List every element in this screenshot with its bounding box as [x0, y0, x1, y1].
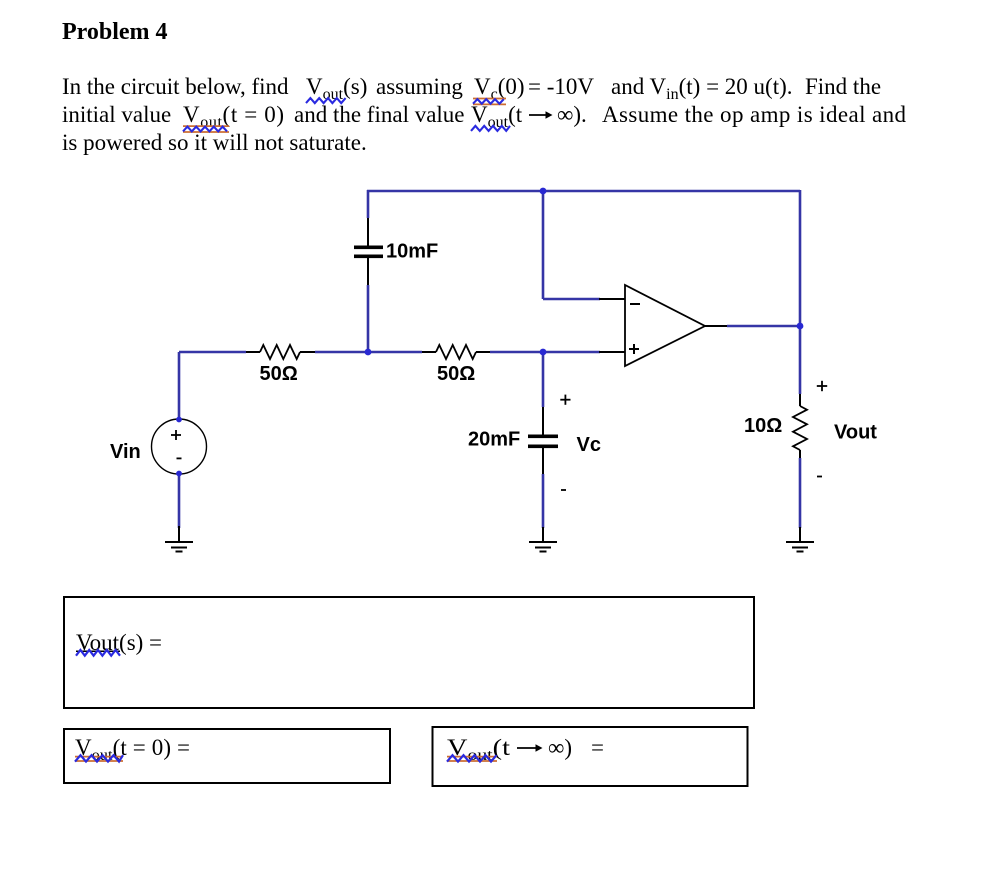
svg-text:Find the: Find the	[805, 74, 881, 99]
svg-text:=: =	[591, 735, 604, 760]
svg-text:∞): ∞)	[548, 735, 572, 760]
svg-text:10Ω: 10Ω	[744, 415, 782, 437]
svg-text:and the final value: and the final value	[294, 102, 465, 127]
svg-text:Vout: Vout	[834, 422, 877, 444]
svg-text:Assume the op amp is ideal and: Assume the op amp is ideal and	[602, 102, 907, 127]
svg-text:10mF: 10mF	[386, 241, 438, 263]
svg-text:In the circuit below, find: In the circuit below, find	[62, 74, 289, 99]
svg-text:= -10V: = -10V	[528, 74, 594, 99]
svg-text:Vin: Vin	[110, 441, 141, 463]
svg-text:Vout(t: Vout(t	[471, 102, 523, 131]
svg-text:Vout(t = 0) =: Vout(t = 0) =	[75, 735, 190, 764]
svg-text:initial value: initial value	[62, 102, 171, 127]
svg-text:20mF: 20mF	[468, 429, 520, 451]
svg-text:50Ω: 50Ω	[437, 363, 475, 385]
svg-text:assuming: assuming	[376, 74, 463, 99]
svg-text:Problem 4: Problem 4	[62, 19, 168, 45]
svg-text:is powered so it will not satu: is powered so it will not saturate.	[62, 130, 367, 155]
svg-text:Vc: Vc	[577, 434, 601, 456]
svg-text:and Vin(t) = 20 u(t).: and Vin(t) = 20 u(t).	[611, 74, 793, 103]
svg-text:50Ω: 50Ω	[260, 363, 298, 385]
svg-text:∞).: ∞).	[557, 102, 587, 127]
